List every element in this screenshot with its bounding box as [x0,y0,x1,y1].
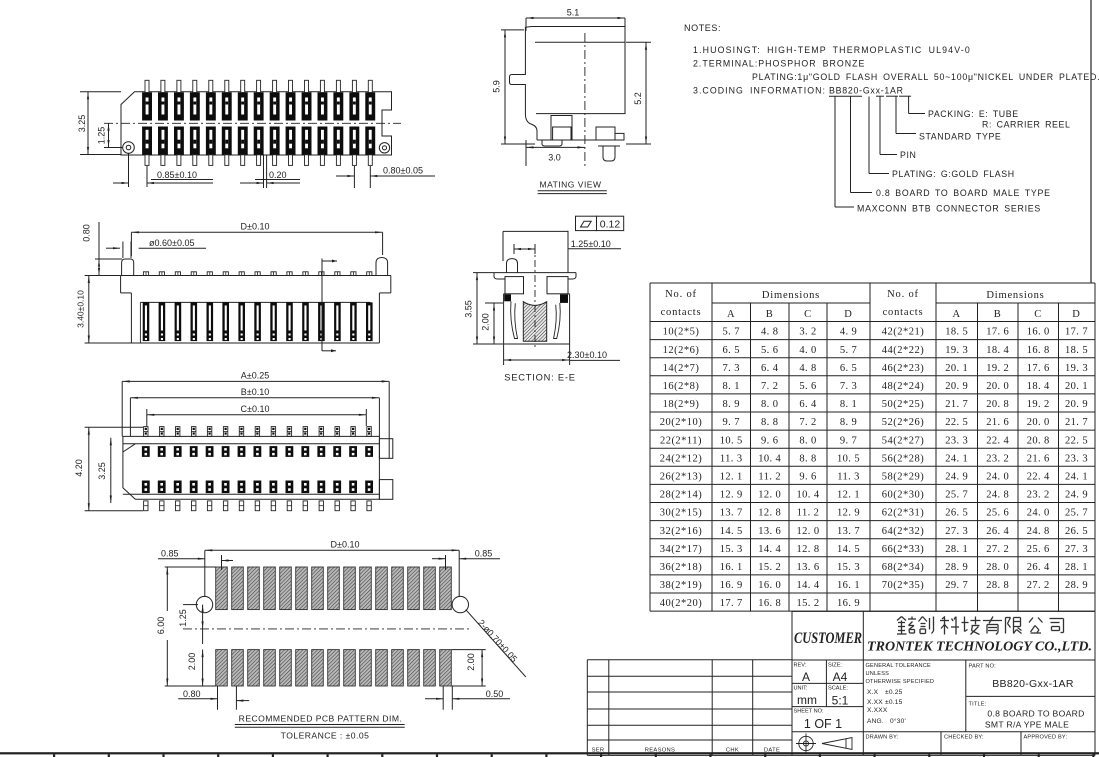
svg-text:14. 5: 14. 5 [720,526,743,537]
svg-text:26. 4: 26. 4 [1027,562,1050,573]
svg-text:20(2*10): 20(2*10) [660,417,703,428]
svg-text:B: B [766,309,774,320]
svg-text:17. 6: 17. 6 [1027,363,1050,374]
svg-text:28. 9: 28. 9 [1065,580,1088,591]
svg-text:3.25: 3.25 [97,462,107,480]
svg-text:6. 5: 6. 5 [840,363,857,374]
svg-text:8. 1: 8. 1 [723,381,740,392]
svg-text:24(2*12): 24(2*12) [660,453,703,464]
svg-text:0.85: 0.85 [161,549,179,559]
svg-text:38(2*19): 38(2*19) [660,580,703,591]
svg-text:DRAWN BY:: DRAWN BY: [866,735,899,741]
svg-text:TITLE:: TITLE: [969,702,987,708]
svg-text:8. 0: 8. 0 [799,435,816,446]
svg-text:TRONTEK TECHNOLOGY CO.,LTD.: TRONTEK TECHNOLOGY CO.,LTD. [867,640,1092,655]
svg-text:70(2*35): 70(2*35) [882,580,925,591]
svg-text:5. 7: 5. 7 [840,345,857,356]
svg-text:29. 7: 29. 7 [945,580,968,591]
svg-text:5:1: 5:1 [832,694,849,708]
svg-text:15. 2: 15. 2 [797,598,820,609]
svg-text:25. 7: 25. 7 [1065,508,1088,519]
svg-text:8. 0: 8. 0 [761,399,778,410]
svg-text:26. 4: 26. 4 [986,526,1009,537]
svg-text:18. 5: 18. 5 [945,327,968,338]
svg-text:A: A [802,670,810,684]
svg-text:7. 2: 7. 2 [799,417,816,428]
svg-text:MAXCONN BTB CONNECTOR SERIES: MAXCONN BTB CONNECTOR SERIES [857,204,1041,214]
svg-text:D: D [844,309,852,320]
svg-text:0.12: 0.12 [600,219,621,231]
svg-text:X.X: X.X [867,689,879,696]
svg-text:27. 3: 27. 3 [1065,544,1088,555]
svg-text:TOLERANCE : ±0.05: TOLERANCE : ±0.05 [281,731,370,741]
svg-text:10. 4: 10. 4 [797,490,820,501]
svg-text:6.00: 6.00 [156,617,166,635]
svg-text:23. 3: 23. 3 [1065,453,1088,464]
svg-text:6. 4: 6. 4 [799,399,817,410]
svg-text:52(2*26): 52(2*26) [882,417,925,428]
svg-text:9. 7: 9. 7 [840,435,857,446]
svg-text:21. 6: 21. 6 [986,417,1009,428]
svg-text:28. 9: 28. 9 [945,562,968,573]
svg-text:8. 8: 8. 8 [761,417,778,428]
svg-text:23. 2: 23. 2 [986,453,1009,464]
svg-text:11. 3: 11. 3 [720,453,743,464]
svg-text:24. 9: 24. 9 [1065,490,1088,501]
svg-text:SMT R/A YPE MALE: SMT R/A YPE MALE [985,720,1069,730]
svg-text:42(2*21): 42(2*21) [882,327,925,338]
svg-text:28. 0: 28. 0 [986,562,1009,573]
svg-text:25. 7: 25. 7 [945,490,968,501]
svg-text:12. 8: 12. 8 [758,508,781,519]
svg-text:16. 8: 16. 8 [1027,345,1050,356]
svg-text:22(2*11): 22(2*11) [660,435,702,446]
svg-text:20. 0: 20. 0 [1027,417,1050,428]
svg-text:24. 0: 24. 0 [986,472,1009,483]
svg-text:X.XX: X.XX [867,699,883,706]
svg-text:20. 9: 20. 9 [945,381,968,392]
svg-text:6. 5: 6. 5 [723,345,740,356]
svg-text:24. 8: 24. 8 [1027,526,1050,537]
svg-text:APPROVED BY:: APPROVED BY: [1024,735,1068,741]
svg-text:19. 3: 19. 3 [945,345,968,356]
svg-text:REV:: REV: [794,663,807,669]
svg-text:13. 7: 13. 7 [837,526,860,537]
svg-text:C: C [1034,309,1042,320]
svg-text:5.1: 5.1 [567,8,580,18]
svg-text:21. 7: 21. 7 [945,399,968,410]
svg-text:8. 8: 8. 8 [799,453,816,464]
svg-text:17. 7: 17. 7 [1065,327,1088,338]
svg-text:12. 8: 12. 8 [797,544,820,555]
svg-text:10. 4: 10. 4 [758,453,781,464]
svg-text:Dimensions: Dimensions [986,290,1044,301]
svg-text:A±0.25: A±0.25 [241,371,269,381]
svg-text:19. 3: 19. 3 [1065,363,1088,374]
svg-text:18. 4: 18. 4 [986,345,1009,356]
svg-text:50(2*25): 50(2*25) [882,399,925,410]
svg-text:CUSTOMER: CUSTOMER [794,630,862,647]
svg-text:20. 0: 20. 0 [986,381,1009,392]
svg-text:0.85: 0.85 [475,549,493,559]
svg-text:24. 1: 24. 1 [945,453,968,464]
svg-text:1.25: 1.25 [178,609,188,627]
svg-text:UNLESS: UNLESS [866,671,890,677]
svg-text:2.30±0.10: 2.30±0.10 [567,350,607,360]
svg-text:STANDARD TYPE: STANDARD TYPE [919,132,1001,142]
svg-text:0.8 BOARD TO BOARD: 0.8 BOARD TO BOARD [987,709,1084,719]
svg-text:20. 1: 20. 1 [945,363,968,374]
svg-text:11. 2: 11. 2 [758,472,781,483]
svg-text:A: A [953,309,961,320]
svg-text:No. of: No. of [665,289,697,300]
svg-text:4. 9: 4. 9 [840,327,857,338]
svg-text:18(2*9): 18(2*9) [663,399,700,410]
svg-text:20. 9: 20. 9 [1065,399,1088,410]
svg-text:0.20: 0.20 [269,170,287,180]
svg-text:22. 5: 22. 5 [945,417,968,428]
svg-text:10. 5: 10. 5 [720,435,743,446]
svg-text:5.2: 5.2 [633,92,643,105]
svg-text:A: A [727,309,735,320]
svg-text:46(2*23): 46(2*23) [882,363,925,374]
svg-text:5. 7: 5. 7 [723,327,740,338]
svg-text:BB820-Gxx-1AR: BB820-Gxx-1AR [829,86,904,96]
svg-text:3.40±0.10: 3.40±0.10 [76,290,86,328]
svg-text:RECOMMENDED PCB PATTERN DIM.: RECOMMENDED PCB PATTERN DIM. [239,714,403,724]
svg-text:5. 6: 5. 6 [799,381,816,392]
svg-text:48(2*24): 48(2*24) [882,381,925,392]
svg-text:15. 3: 15. 3 [720,544,743,555]
svg-text:26(2*13): 26(2*13) [660,472,703,483]
svg-text:10. 5: 10. 5 [837,453,860,464]
svg-text:17. 7: 17. 7 [720,598,743,609]
svg-text:15. 3: 15. 3 [837,562,860,573]
svg-text:17. 6: 17. 6 [986,327,1009,338]
svg-text:4. 8: 4. 8 [761,327,778,338]
svg-text:9. 6: 9. 6 [761,435,778,446]
svg-text:26. 5: 26. 5 [1065,526,1088,537]
svg-text:26. 5: 26. 5 [945,508,968,519]
svg-text:OTHERWISE SPECIFIED: OTHERWISE SPECIFIED [866,679,935,685]
svg-text:C±0.10: C±0.10 [241,404,270,414]
svg-text:0.8 BOARD TO BOARD MALE TYPE: 0.8 BOARD TO BOARD MALE TYPE [876,188,1051,198]
svg-text:contacts: contacts [661,307,702,318]
svg-text:C: C [804,309,812,320]
svg-text:mm: mm [797,693,817,707]
svg-text:10(2*5): 10(2*5) [663,327,700,338]
svg-text:No. of: No. of [887,289,919,300]
svg-text:7. 3: 7. 3 [723,363,740,374]
svg-text:1.25±0.10: 1.25±0.10 [571,239,611,249]
svg-text:PLATING:1μ"GOLD FLASH OVERALL: PLATING:1μ"GOLD FLASH OVERALL 50~100μ"NI… [752,72,1099,82]
svg-text:16. 1: 16. 1 [720,562,743,573]
svg-text:64(2*32): 64(2*32) [882,526,925,537]
svg-text:5. 6: 5. 6 [761,345,778,356]
svg-text:27. 2: 27. 2 [986,544,1009,555]
svg-text:14. 4: 14. 4 [758,544,781,555]
svg-text:28. 1: 28. 1 [945,544,968,555]
svg-text:3. 2: 3. 2 [799,327,816,338]
svg-text:22. 4: 22. 4 [986,435,1009,446]
svg-text:58(2*29): 58(2*29) [882,472,925,483]
svg-text:8. 9: 8. 9 [840,417,857,428]
svg-text:15. 2: 15. 2 [758,562,781,573]
svg-text:24. 9: 24. 9 [945,472,968,483]
svg-text:23. 2: 23. 2 [1027,490,1050,501]
svg-text:12. 0: 12. 0 [797,526,820,537]
svg-text:60(2*30): 60(2*30) [882,490,925,501]
svg-text:12. 1: 12. 1 [837,490,860,501]
svg-text:0.50: 0.50 [486,689,504,699]
svg-text:BB820-Gxx-1AR: BB820-Gxx-1AR [992,678,1074,690]
svg-text:27. 2: 27. 2 [1027,580,1050,591]
svg-text:0.80: 0.80 [183,689,201,699]
svg-text:13. 6: 13. 6 [758,526,781,537]
svg-text:4. 0: 4. 0 [799,345,816,356]
svg-text:11. 2: 11. 2 [797,508,820,519]
svg-text:23. 3: 23. 3 [945,435,968,446]
svg-text:12. 9: 12. 9 [720,490,743,501]
svg-text:PACKING: E: TUBE: PACKING: E: TUBE [928,109,1019,119]
svg-text:14. 4: 14. 4 [797,580,820,591]
svg-text:68(2*34): 68(2*34) [882,562,925,573]
svg-text:GENERAL TOLERANCE: GENERAL TOLERANCE [866,663,932,669]
svg-text:21. 7: 21. 7 [1065,417,1088,428]
svg-text:7. 2: 7. 2 [761,381,778,392]
svg-text:34(2*17): 34(2*17) [660,544,703,555]
svg-text:18. 5: 18. 5 [1065,345,1088,356]
svg-text:±0.15: ±0.15 [885,699,903,706]
svg-text:16. 9: 16. 9 [837,598,860,609]
svg-text:9. 6: 9. 6 [799,472,816,483]
svg-text:B±0.10: B±0.10 [241,387,269,397]
svg-text:D: D [1072,309,1080,320]
svg-text:36(2*18): 36(2*18) [660,562,703,573]
svg-text:PIN: PIN [900,150,916,160]
svg-text:24. 0: 24. 0 [1027,508,1050,519]
svg-text:3.55: 3.55 [464,300,474,318]
svg-text:16(2*8): 16(2*8) [663,381,700,392]
svg-text:13. 7: 13. 7 [720,508,743,519]
svg-text:PLATING: G:GOLD FLASH: PLATING: G:GOLD FLASH [892,169,1015,179]
svg-text:16. 0: 16. 0 [758,580,781,591]
svg-text:0.80±0.05: 0.80±0.05 [383,166,423,176]
svg-text:22. 4: 22. 4 [1027,472,1050,483]
svg-text:1 OF 1: 1 OF 1 [804,717,842,731]
svg-text:4.20: 4.20 [74,459,84,477]
svg-text:54(2*27): 54(2*27) [882,435,925,446]
svg-text:12. 1: 12. 1 [720,472,743,483]
svg-text:25. 6: 25. 6 [986,508,1009,519]
svg-text:±0.25: ±0.25 [885,689,903,696]
svg-text:12. 0: 12. 0 [758,490,781,501]
svg-text:24. 1: 24. 1 [1065,472,1088,483]
svg-text:14(2*7): 14(2*7) [663,363,700,374]
svg-text:X.XXX: X.XXX [867,707,888,714]
svg-text:SCALE:: SCALE: [828,686,848,692]
svg-text:11. 3: 11. 3 [837,472,860,483]
svg-text:5.9: 5.9 [492,80,502,93]
svg-text:6. 4: 6. 4 [761,363,779,374]
svg-text:ø0.60±0.05: ø0.60±0.05 [149,238,194,248]
svg-text:16. 0: 16. 0 [1027,327,1050,338]
svg-text:16. 8: 16. 8 [758,598,781,609]
svg-text:PART NO:: PART NO: [969,664,997,670]
svg-text:12(2*6): 12(2*6) [663,345,700,356]
svg-text:ANG.: ANG. [867,718,884,725]
svg-text:contacts: contacts [883,307,924,318]
svg-text:20. 8: 20. 8 [1027,435,1050,446]
svg-text:1.25: 1.25 [97,127,107,145]
svg-text:19. 2: 19. 2 [1027,399,1050,410]
svg-text:21. 6: 21. 6 [1027,453,1050,464]
svg-text:25. 6: 25. 6 [1027,544,1050,555]
svg-text:62(2*31): 62(2*31) [882,508,925,519]
svg-text:2.00: 2.00 [187,653,197,671]
svg-text:13. 6: 13. 6 [797,562,820,573]
svg-text:NOTES:: NOTES: [684,23,721,33]
svg-text:8. 9: 8. 9 [723,399,740,410]
svg-text:16. 1: 16. 1 [837,580,860,591]
svg-text:27. 3: 27. 3 [945,526,968,537]
svg-text:14. 5: 14. 5 [837,544,860,555]
svg-text:0.85±0.10: 0.85±0.10 [157,170,197,180]
svg-text:40(2*20): 40(2*20) [660,598,703,609]
svg-text:4. 8: 4. 8 [799,363,816,374]
svg-text:3.25: 3.25 [77,115,87,133]
svg-text:3.0: 3.0 [548,153,561,163]
svg-text:2.TERMINAL:PHOSPHOR BRONZE: 2.TERMINAL:PHOSPHOR BRONZE [693,59,865,69]
svg-text:R: CARRIER REEL: R: CARRIER REEL [982,120,1070,130]
svg-text:24. 8: 24. 8 [986,490,1009,501]
svg-text:8. 1: 8. 1 [840,399,857,410]
svg-text:30(2*15): 30(2*15) [660,508,703,519]
svg-text:28. 1: 28. 1 [1065,562,1088,573]
svg-text:SECTION: E-E: SECTION: E-E [504,373,576,383]
svg-text:9. 7: 9. 7 [723,417,740,428]
svg-text:SHEET NO:: SHEET NO: [794,709,824,715]
svg-text:0°30': 0°30' [890,717,906,725]
svg-text:2.00: 2.00 [481,313,491,331]
svg-text:44(2*22): 44(2*22) [882,345,925,356]
svg-text:D±0.10: D±0.10 [331,540,360,550]
svg-text:56(2*28): 56(2*28) [882,453,925,464]
svg-text:19. 2: 19. 2 [986,363,1009,374]
svg-text:28. 8: 28. 8 [986,580,1009,591]
svg-text:UNIT:: UNIT: [794,686,808,692]
svg-text:B: B [994,309,1002,320]
svg-text:1.HUOSINGT: HIGH-TEMP THERMOPL: 1.HUOSINGT: HIGH-TEMP THERMOPLASTIC UL94… [693,45,971,55]
svg-text:32(2*16): 32(2*16) [660,526,703,537]
svg-text:3.CODING INFORMATION:: 3.CODING INFORMATION: [693,86,826,96]
svg-text:22. 5: 22. 5 [1065,435,1088,446]
svg-text:28(2*14): 28(2*14) [660,490,703,501]
svg-text:20. 1: 20. 1 [1065,381,1088,392]
svg-text:CHECKED BY:: CHECKED BY: [944,735,984,741]
svg-text:7. 3: 7. 3 [840,381,857,392]
svg-text:66(2*33): 66(2*33) [882,544,925,555]
svg-text:D±0.10: D±0.10 [241,222,270,232]
svg-text:16. 9: 16. 9 [720,580,743,591]
svg-text:Dimensions: Dimensions [762,290,820,301]
svg-text:12. 9: 12. 9 [837,508,860,519]
svg-text:0.80: 0.80 [82,224,92,242]
svg-text:18. 4: 18. 4 [1027,381,1050,392]
svg-text:20. 8: 20. 8 [986,399,1009,410]
svg-text:A4: A4 [833,670,848,684]
svg-text:SIZE:: SIZE: [828,663,842,669]
svg-text:MATING VIEW: MATING VIEW [539,180,601,190]
svg-text:2.00: 2.00 [466,653,476,671]
